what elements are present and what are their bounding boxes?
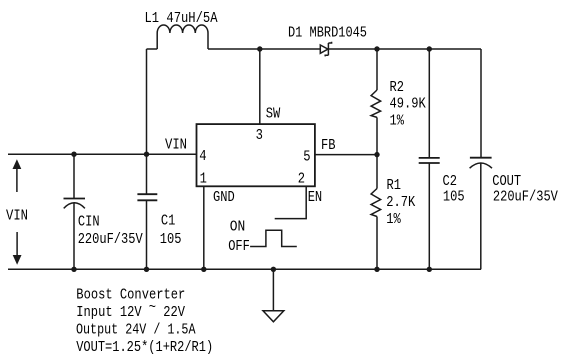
wire SW pin 3 [259, 49, 261, 124]
svg-text:R1: R1 [387, 177, 402, 194]
svg-text:Output 24V / 1.5A: Output 24V / 1.5A [76, 321, 196, 338]
capacitor C1 [137, 154, 157, 269]
node C1 bottom [144, 267, 149, 272]
svg-text:C2: C2 [443, 173, 458, 190]
svg-text:220uF/35V: 220uF/35V [493, 188, 558, 205]
svg-text:3: 3 [256, 127, 263, 144]
wire EN pin 2 [275, 186, 307, 218]
wire left riser [146, 49, 148, 154]
wire bottom rail [8, 268, 481, 270]
svg-text:L1 47uH/5A: L1 47uH/5A [145, 10, 218, 27]
node FB [374, 152, 379, 157]
svg-text:105: 105 [443, 188, 465, 205]
svg-text:FB: FB [321, 137, 336, 154]
svg-text:1%: 1% [390, 113, 405, 130]
svg-text:4: 4 [199, 148, 206, 165]
svg-text:SW: SW [266, 106, 281, 123]
svg-text:C1: C1 [161, 212, 176, 229]
svg-text:Input 12V: Input 12V [76, 304, 141, 321]
svg-text:5: 5 [303, 149, 310, 166]
node C2 bottom [427, 267, 432, 272]
capacitor C2 [419, 49, 440, 269]
svg-text:1%: 1% [386, 211, 401, 228]
svg-text:49.9K: 49.9K [390, 96, 426, 113]
capacitor CIN [64, 154, 86, 269]
svg-text:OFF: OFF [228, 238, 250, 255]
resistor R1 [371, 155, 381, 270]
inductor L1 [157, 25, 208, 49]
svg-text:ON: ON [230, 218, 246, 235]
input voltage down arrow [13, 232, 22, 265]
svg-text:22V: 22V [163, 304, 185, 321]
svg-text:R2: R2 [390, 79, 405, 96]
pulse waveform [250, 230, 297, 246]
svg-text:Boost Converter: Boost Converter [76, 286, 185, 303]
node SW junction [257, 46, 262, 51]
diode D1 [320, 42, 331, 57]
svg-text:105: 105 [160, 231, 182, 248]
node CIN top [71, 152, 76, 157]
node C1 top [144, 152, 149, 157]
svg-text:~: ~ [149, 299, 156, 316]
wire top rail right segment [208, 48, 481, 50]
svg-text:D1 MBRD1045: D1 MBRD1045 [288, 25, 367, 42]
wire top rail left segment [147, 48, 158, 50]
node diode cathode / R2 top [374, 46, 379, 51]
wire GND pin 1 [203, 186, 205, 269]
node GND pin bottom [201, 267, 206, 272]
svg-text:CIN: CIN [78, 213, 100, 230]
svg-text:2.7K: 2.7K [386, 194, 415, 211]
svg-text:220uF/35V: 220uF/35V [78, 231, 143, 248]
wire VIN rail [8, 153, 197, 155]
input voltage up arrow [13, 159, 22, 192]
svg-text:EN: EN [308, 189, 323, 206]
resistor R2 [371, 49, 381, 155]
node R1 bottom [374, 267, 379, 272]
svg-text:GND: GND [213, 189, 235, 206]
svg-text:VIN: VIN [6, 208, 28, 225]
svg-text:2: 2 [298, 170, 305, 187]
node C2 top [427, 46, 432, 51]
node ground stem [271, 267, 276, 272]
svg-text:VIN: VIN [165, 137, 187, 154]
svg-text:COUT: COUT [492, 173, 521, 190]
wire FB pin 5 [315, 154, 377, 156]
op-amp U1 regulator box [197, 124, 315, 186]
svg-text:VOUT=1.25*(1+R2/R1): VOUT=1.25*(1+R2/R1) [76, 339, 213, 356]
ground [263, 269, 284, 322]
capacitor COUT [470, 49, 492, 269]
node CIN bottom [71, 267, 76, 272]
svg-text:1: 1 [200, 170, 207, 187]
